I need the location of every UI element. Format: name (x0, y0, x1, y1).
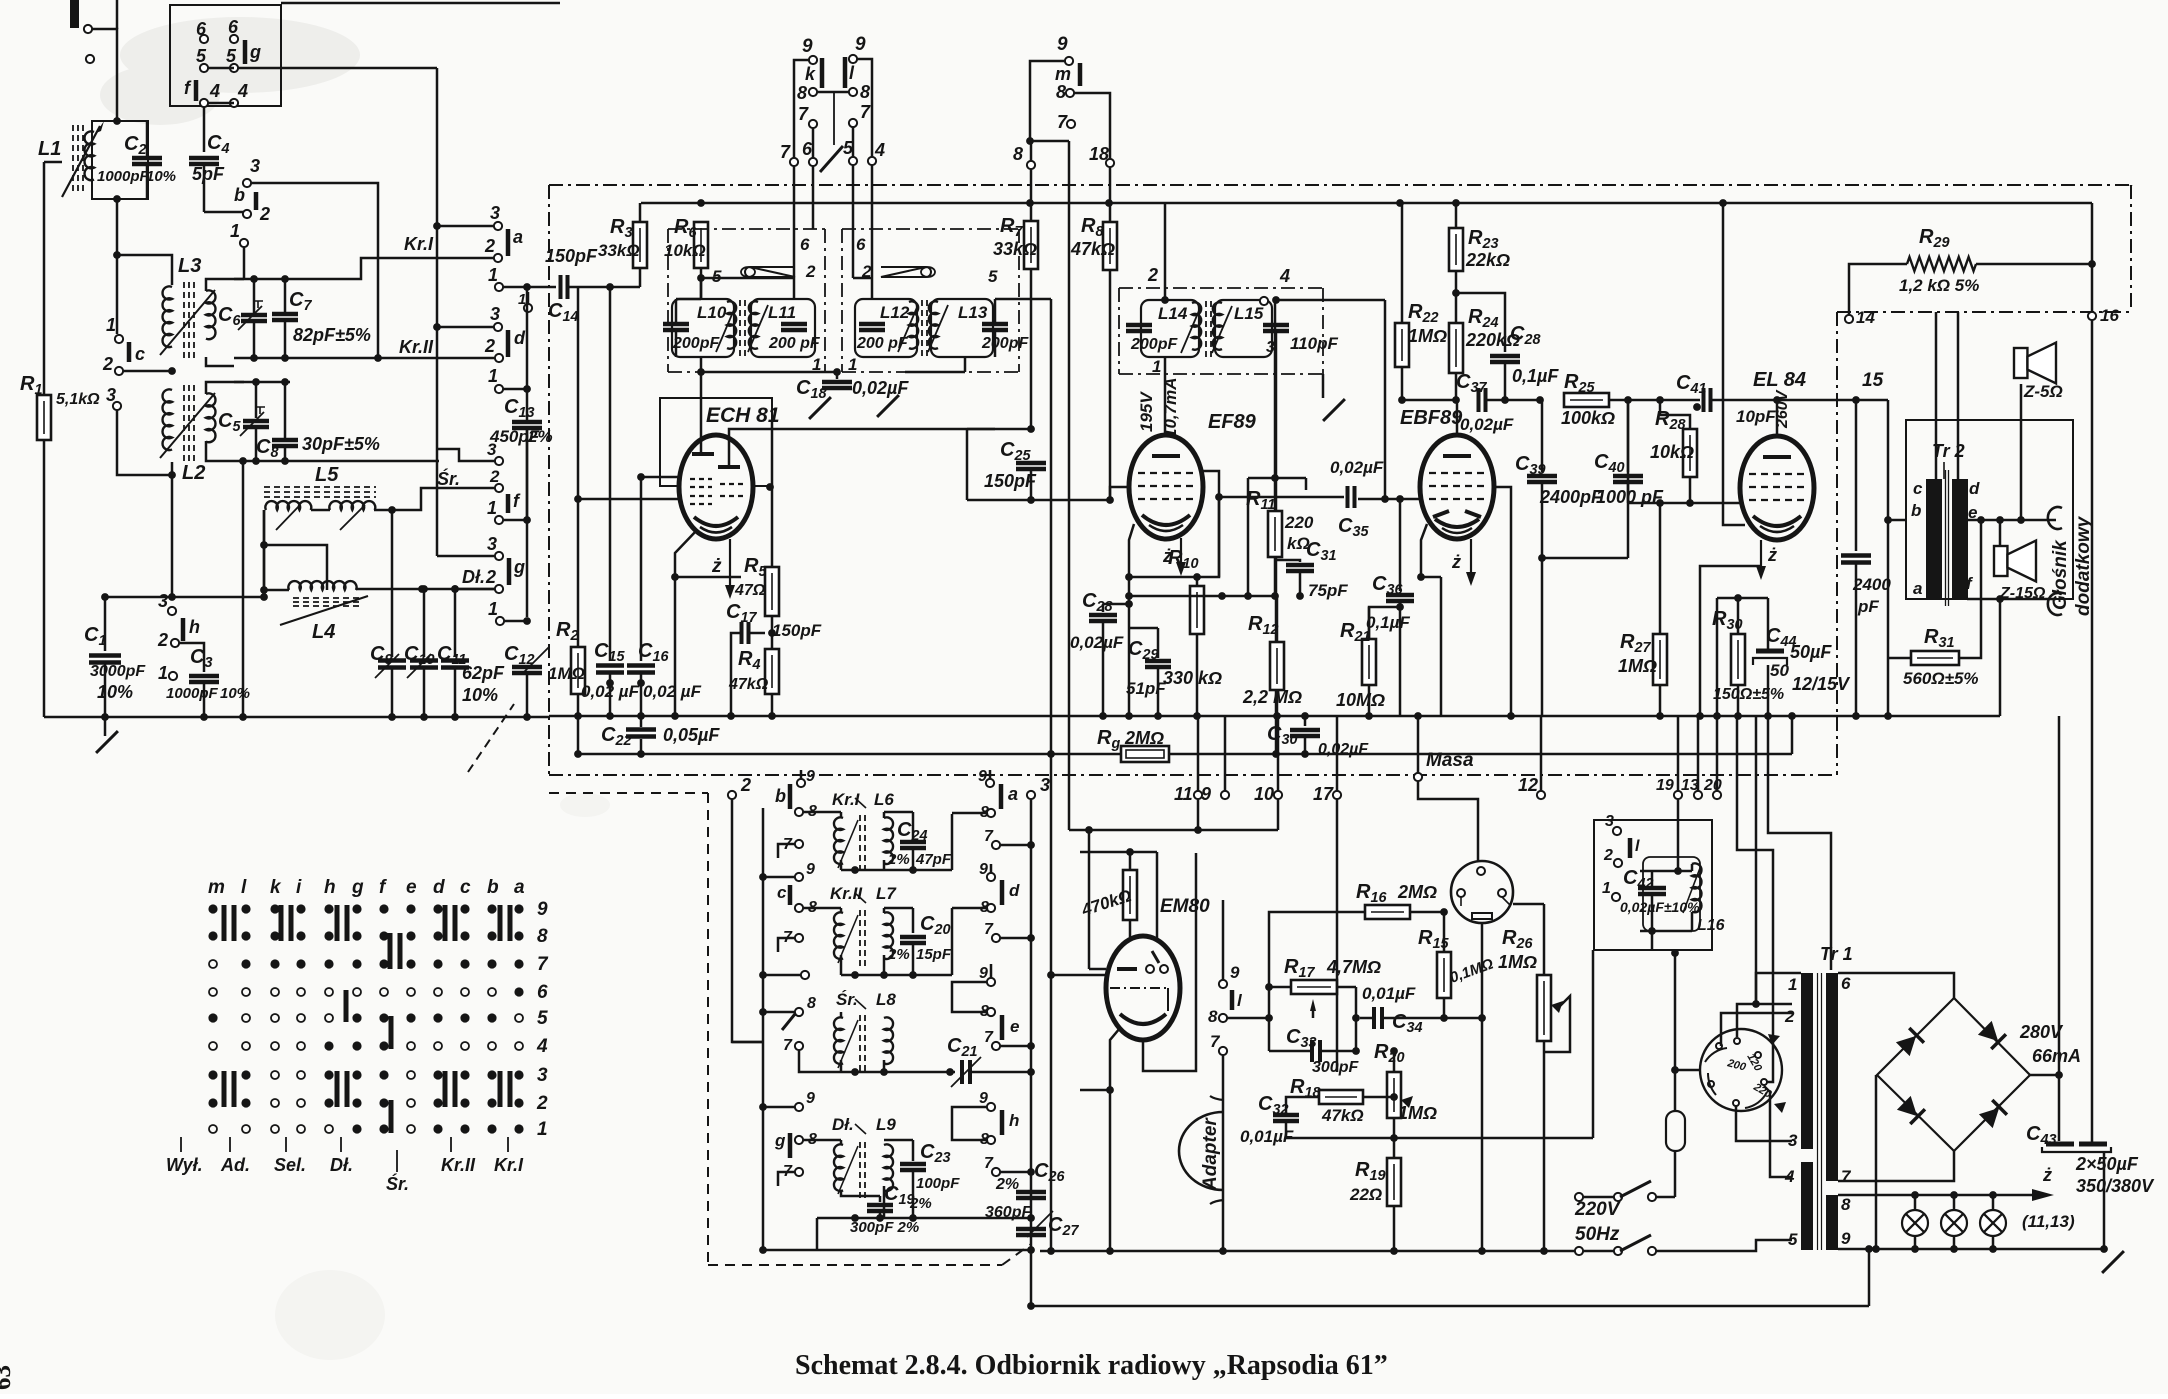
resistor R11 (1274, 300, 1277, 478)
svg-text:10MΩ: 10MΩ (1336, 690, 1385, 710)
svg-text:8: 8 (537, 926, 548, 947)
svg-text:L14: L14 (1158, 304, 1188, 323)
wire c3 down (117, 410, 172, 475)
DIN socket (1451, 861, 1513, 923)
capacitor C27 variable (1016, 1227, 1046, 1232)
capacitor C5 variable (255, 382, 258, 418)
wire sec 6 to bridge (1838, 973, 1954, 998)
svg-text:1: 1 (518, 291, 526, 308)
resistor R18 (1319, 1090, 1363, 1104)
diode D1 (1895, 1028, 1923, 1056)
wire EBF89 diode pin (1492, 487, 1511, 716)
svg-text:2: 2 (259, 204, 270, 224)
svg-text:9: 9 (806, 1090, 815, 1107)
terminal 12 (1537, 791, 1545, 799)
diode D4 (1978, 1100, 2006, 1128)
box L12 (855, 299, 917, 357)
svg-text:Schemat 2.8.4. Odbiornik radio: Schemat 2.8.4. Odbiornik radiowy „Rapsod… (795, 1350, 1388, 1381)
svg-text:Sel.: Sel. (274, 1155, 306, 1175)
capacitor C36 (1399, 499, 1402, 591)
capacitor C1 (104, 597, 107, 651)
wire bottom common (701, 371, 840, 374)
svg-text:Tr 1: Tr 1 (1820, 944, 1853, 964)
wire L14 pin2 (1161, 296, 1169, 304)
wire grid left (641, 476, 680, 479)
svg-text:3: 3 (1040, 775, 1050, 795)
main B+ bus inside shield (641, 202, 2092, 205)
wire tap1 (1756, 973, 1801, 1004)
capacitor C20 (884, 907, 913, 910)
switch d osc (1000, 880, 1005, 905)
svg-text:6: 6 (856, 235, 866, 254)
svg-text:k: k (270, 877, 282, 898)
svg-text:47kΩ: 47kΩ (1321, 1106, 1364, 1125)
wire R3 bottom left (610, 286, 640, 289)
wire L2 sec frame (206, 382, 244, 394)
svg-text:4: 4 (237, 81, 248, 101)
svg-text:Masa: Masa (1426, 750, 1474, 771)
wire g2 row (455, 588, 495, 591)
wire f3 step (437, 449, 496, 461)
svg-text:m: m (1055, 64, 1071, 84)
wire grid from C41 down (1627, 400, 1630, 503)
wire anode up right (729, 429, 1031, 467)
coil L2 (163, 389, 172, 450)
svg-text:260V: 260V (1774, 389, 1791, 429)
terminal 16 (2088, 312, 2096, 320)
svg-text:3: 3 (487, 534, 497, 554)
row 7 6 5 4 (790, 158, 798, 166)
svg-text:Dł.: Dł. (330, 1155, 353, 1175)
svg-text:15: 15 (1862, 370, 1884, 391)
svg-text:50µF: 50µF (1790, 642, 1832, 662)
svg-text:Kr.II: Kr.II (441, 1155, 476, 1175)
long bottom wire (1031, 1305, 1869, 1308)
svg-text:0,02 µF: 0,02 µF (643, 682, 702, 701)
wire g3 left (437, 555, 494, 558)
svg-text:Kr.I: Kr.I (404, 234, 434, 254)
svg-text:9: 9 (1201, 784, 1211, 804)
wire L3 secondary frame (206, 279, 244, 291)
wire 1069 down (1068, 141, 1071, 203)
wire L2 node to ground bus (171, 462, 174, 597)
wire tube right pin down (770, 487, 772, 567)
switch box f/g top-left (170, 5, 281, 106)
speaker Z-5 (2014, 348, 2027, 378)
wire L10 pin5 vertical (700, 278, 703, 299)
svg-text:Kr.I: Kr.I (494, 1155, 524, 1175)
svg-text:6: 6 (800, 235, 810, 254)
svg-text:8: 8 (1208, 1007, 1218, 1026)
svg-text:EL 84: EL 84 (1753, 369, 1806, 391)
matrix bars f-e row8-7 (388, 933, 393, 969)
svg-text:47kΩ: 47kΩ (728, 676, 769, 693)
svg-text:ż: ż (2042, 1165, 2052, 1185)
wire selector left (1675, 1069, 1700, 1072)
wire 11 down (1197, 799, 1200, 830)
svg-text:1MΩ: 1MΩ (548, 664, 585, 683)
svg-text:5: 5 (196, 46, 207, 66)
wire bottom row to Kr.II (234, 357, 494, 360)
svg-text:3: 3 (1788, 1131, 1798, 1150)
svg-text:82pF±5%: 82pF±5% (293, 325, 371, 345)
svg-text:1: 1 (812, 355, 821, 374)
resistor R6 (694, 222, 708, 268)
tube ECH81 (679, 435, 753, 539)
svg-text:L3: L3 (178, 255, 201, 277)
wire R16 right (1410, 911, 1444, 914)
wire C32 row right (1394, 1137, 1593, 1140)
wire heater winding 8 (1838, 1194, 2032, 1197)
capacitor C19 (841, 1190, 855, 1196)
ground slash bottom left (104, 717, 107, 736)
wire d1 right (503, 388, 527, 391)
svg-text:EF89: EF89 (1208, 411, 1257, 433)
wire EM80 right pin (1156, 852, 1159, 940)
svg-text:g: g (249, 42, 261, 62)
svg-text:3: 3 (490, 304, 500, 324)
svg-text:7: 7 (1841, 1167, 1852, 1186)
svg-text:L6: L6 (874, 790, 894, 809)
grid line EF89 (967, 499, 1110, 502)
resistor R28 (1659, 400, 1662, 415)
ground slash IF II (1322, 374, 1325, 398)
svg-text:2: 2 (484, 336, 495, 356)
wire L7 bottom row (841, 974, 952, 977)
svg-text:L8: L8 (876, 990, 896, 1009)
wire EM80 bottom pins (1080, 1028, 1120, 1090)
svg-text:33kΩ: 33kΩ (993, 239, 1037, 259)
svg-text:L11: L11 (768, 303, 796, 322)
wire b9 up (800, 770, 803, 779)
wire 967 top (967, 428, 995, 431)
wires in box (1651, 871, 1654, 888)
switch c osc (795, 873, 803, 881)
wire top row C6/C7 (234, 278, 300, 281)
svg-text:h: h (1009, 1111, 1019, 1130)
svg-text:150pF: 150pF (984, 471, 1037, 491)
svg-text:a: a (514, 877, 525, 898)
capacitor C15 (609, 287, 612, 661)
terminal 14 (1845, 315, 1853, 323)
wire f1 right (503, 519, 527, 522)
svg-text:3000pF: 3000pF (90, 663, 146, 680)
wire 17 down (1336, 799, 1339, 1072)
svg-text:66mA: 66mA (2032, 1046, 2081, 1066)
contact 7 right (992, 841, 1000, 849)
wire top right corner (2130, 185, 2133, 186)
svg-text:5,1kΩ: 5,1kΩ (56, 391, 100, 408)
main bus under shield (549, 715, 2000, 718)
wires from row down into IF (793, 166, 796, 278)
svg-text:9: 9 (537, 899, 548, 920)
antenna terminal block (cut at top) (70, 0, 79, 28)
svg-text:200pF: 200pF (1130, 336, 1178, 353)
wire h2 to C3 (179, 643, 204, 672)
svg-text:17: 17 (1313, 784, 1334, 804)
wire b pin (1888, 519, 1906, 522)
wire a3 (437, 225, 494, 228)
svg-text:0,02µF: 0,02µF (1070, 633, 1124, 652)
svg-text:150pF: 150pF (545, 246, 598, 266)
svg-text:L16: L16 (1697, 917, 1725, 934)
dashed box oscillator (707, 793, 709, 1265)
vertical 763 (762, 808, 765, 1250)
svg-text:10%: 10% (462, 685, 498, 705)
capacitor C39 (1541, 400, 1544, 472)
transformer Tr2 box (1906, 420, 2073, 599)
switch d (Kr.II) (494, 323, 502, 331)
wire e row (1967, 519, 2056, 522)
wire bridge left vertex down (1875, 1075, 1878, 1249)
wire c2 to L3/L2 junction (123, 370, 172, 373)
capacitor C10 variable (423, 589, 426, 657)
wire (92, 29, 117, 121)
svg-text:7: 7 (783, 1037, 793, 1054)
wire L1 left to R1 line (44, 161, 62, 164)
svg-text:3: 3 (158, 591, 168, 611)
svg-text:Śr.: Śr. (437, 468, 460, 489)
wire EBF89 anode top (1456, 400, 1459, 435)
svg-text:10%: 10% (97, 682, 133, 702)
switch mains lower (1575, 1247, 1583, 1255)
capacitor C9 variable (391, 510, 394, 657)
svg-text:2: 2 (102, 354, 113, 374)
svg-text:1: 1 (537, 1119, 548, 1140)
svg-text:Śr.: Śr. (836, 990, 858, 1009)
svg-text:g: g (351, 877, 364, 898)
box L13 (931, 299, 993, 357)
lamps (1902, 1210, 1928, 1236)
main ground bus left section (44, 716, 549, 719)
svg-text:2: 2 (485, 567, 496, 587)
svg-text:Z-5Ω: Z-5Ω (2023, 382, 2063, 401)
capacitor C22 (640, 716, 643, 727)
wire b8 to L6 (803, 811, 841, 814)
wire long horizontal to L4 (105, 596, 264, 599)
switch f osc wiper (795, 1008, 803, 1016)
contact 1 above C6 (240, 239, 248, 247)
wire 15 down to R31 (1887, 400, 1890, 658)
svg-text:9: 9 (1057, 34, 1068, 55)
capacitor C25 (1016, 461, 1046, 466)
svg-text:10pF: 10pF (1736, 407, 1776, 426)
svg-text:330 kΩ: 330 kΩ (1163, 668, 1222, 688)
capacitor C29 (1129, 627, 1158, 630)
resistor R17 pot (1291, 980, 1337, 994)
svg-text:9: 9 (979, 1090, 988, 1107)
resistor R8 (1103, 222, 1117, 270)
tube EF89 (1129, 435, 1203, 539)
diode D3 (1896, 1095, 1924, 1123)
svg-text:0,01µF: 0,01µF (1362, 984, 1416, 1003)
svg-text:L1: L1 (38, 138, 61, 160)
switch f contacts 6/5/4 (200, 35, 208, 43)
EBF89 cathode (1421, 524, 1441, 577)
svg-text:5: 5 (1788, 1230, 1798, 1249)
capacitor 200pF L11 (781, 322, 807, 327)
wire C39/C40 bottom (1542, 557, 1628, 560)
svg-text:220: 220 (1284, 513, 1314, 532)
svg-text:6: 6 (196, 19, 207, 39)
svg-text:1: 1 (488, 265, 498, 285)
wire C4 to switch b (204, 211, 243, 214)
wire L9 bottom row (817, 1217, 1031, 1220)
svg-text:L4: L4 (312, 621, 335, 643)
svg-text:2: 2 (805, 262, 816, 281)
wire primary feeds (1935, 312, 1938, 479)
inner box C42/L16 (1643, 857, 1700, 931)
wire EF89 cathode loop (1129, 471, 1219, 577)
bar k (820, 58, 825, 88)
svg-text:5: 5 (712, 267, 722, 286)
resistor R15 (1437, 952, 1451, 998)
svg-text:9: 9 (855, 34, 866, 55)
resistor R26 pot (1537, 975, 1551, 1041)
wire f4 down to C4 (203, 107, 206, 152)
svg-text:d: d (1009, 881, 1020, 900)
wire L6 bottom row (841, 869, 952, 872)
wire f2 to L5 (392, 488, 494, 510)
svg-text:0,02µF: 0,02µF (852, 378, 909, 398)
voltage selector (1700, 1029, 1782, 1111)
capacitor C35 (1219, 496, 1344, 499)
capacitor C11 (454, 589, 457, 657)
svg-text:k: k (805, 64, 816, 84)
capacitor C8 (284, 382, 287, 438)
capacitor C30 (1304, 716, 1307, 726)
tube ECH81 box (660, 398, 772, 486)
adapter bracket (1179, 1112, 1223, 1190)
box L10 (672, 299, 734, 357)
wire L4 center tap up (264, 545, 327, 590)
svg-text:Kr.II: Kr.II (830, 884, 863, 903)
wire C5/C8 bottom row (234, 460, 439, 463)
wire C34 row to DIN vertical (1444, 1017, 1482, 1020)
capacitor C42 (1638, 886, 1666, 891)
svg-text:Dł.: Dł. (462, 567, 485, 587)
svg-text:9: 9 (1230, 963, 1240, 982)
capacitor C44 electrolytic (1756, 649, 1784, 654)
right bus osc (1030, 799, 1033, 1250)
svg-text:(11,13): (11,13) (2022, 1212, 2075, 1231)
svg-text:7: 7 (780, 142, 791, 162)
svg-text:1: 1 (106, 315, 116, 335)
svg-text:L2: L2 (182, 462, 205, 484)
svg-text:3: 3 (537, 1065, 548, 1086)
wire pin2 L11 (701, 277, 794, 280)
svg-text:50: 50 (1770, 661, 1789, 680)
svg-text:Dł.: Dł. (832, 1115, 854, 1134)
wire screen row (1129, 595, 1275, 598)
svg-text:b: b (1911, 501, 1921, 520)
svg-text:g: g (513, 557, 525, 577)
svg-text:1: 1 (1788, 975, 1797, 994)
svg-text:0,02µF: 0,02µF (1318, 741, 1369, 758)
matrix bars row9-8 (222, 905, 227, 941)
svg-text:6: 6 (802, 139, 813, 159)
svg-text:6: 6 (537, 982, 548, 1003)
coil L4 (288, 581, 356, 590)
switch b (243, 179, 251, 187)
coil L1 (92, 121, 148, 199)
terminal 2 (728, 791, 736, 799)
wire node to L3 (117, 255, 172, 285)
selector arrow (1769, 1040, 1781, 1062)
wire L4 left end (264, 589, 289, 592)
coil L16 (1692, 863, 1701, 912)
svg-text:Z-15Ω: Z-15Ω (1999, 585, 2046, 602)
svg-text:8: 8 (860, 82, 870, 102)
heater arrow EBF89 (1470, 539, 1472, 572)
switch a (Kr.I) (494, 222, 502, 230)
svg-text:8: 8 (807, 995, 816, 1012)
switch l adapter (1219, 980, 1227, 988)
svg-text:12: 12 (1518, 775, 1538, 795)
svg-text:Śr.: Śr. (386, 1173, 409, 1194)
svg-text:0,02µF: 0,02µF (1330, 458, 1384, 477)
switch l2 (1613, 827, 1621, 835)
svg-text:9: 9 (1841, 1229, 1851, 1248)
capacitor C41 (1702, 388, 1706, 412)
terminal 1' (524, 304, 532, 312)
svg-text:L9: L9 (876, 1115, 896, 1134)
svg-text:EBF89: EBF89 (1400, 407, 1463, 429)
wire tube right pin (766, 483, 774, 491)
svg-text:10%: 10% (146, 168, 176, 185)
svg-text:1: 1 (488, 599, 498, 619)
svg-text:9: 9 (979, 861, 988, 878)
svg-text:d: d (1969, 479, 1980, 498)
svg-text:2MΩ: 2MΩ (1397, 882, 1437, 902)
svg-text:1MΩ: 1MΩ (1498, 952, 1537, 972)
resistor R23 (1455, 203, 1458, 228)
svg-text:100pF: 100pF (916, 1175, 960, 1192)
capacitor C34 (1372, 1007, 1376, 1029)
resistor Rg (1121, 746, 1169, 762)
svg-text:5pF: 5pF (192, 164, 225, 184)
svg-text:30pF±5%: 30pF±5% (302, 434, 380, 454)
svg-text:d: d (433, 877, 445, 898)
svg-text:ż: ż (1451, 552, 1461, 572)
IF can II box (1119, 287, 1323, 289)
svg-text:3: 3 (487, 440, 497, 459)
resistor R10 (1196, 577, 1199, 586)
wire bottom long to power (1868, 1249, 1871, 1306)
wire d3 (437, 326, 494, 329)
ground slash right (2102, 1251, 2124, 1273)
svg-text:1: 1 (1602, 880, 1611, 897)
wire cathode node down (1128, 604, 1131, 716)
svg-text:7: 7 (798, 104, 809, 124)
resistor R12 (1276, 596, 1279, 642)
wire L13 bottom (964, 357, 967, 372)
svg-text:9: 9 (978, 768, 987, 785)
coil L10 (727, 301, 736, 348)
svg-text:7: 7 (537, 954, 549, 975)
svg-text:20: 20 (1703, 777, 1722, 794)
tuning link dashed diagonal (468, 704, 514, 772)
wire m8 right down to 18 (1074, 93, 1110, 158)
wire a1 to C14 (503, 286, 556, 289)
wire 5-5 to right (208, 67, 234, 70)
svg-text:4,7MΩ: 4,7MΩ (1326, 957, 1381, 977)
svg-text:L15: L15 (1234, 304, 1264, 323)
svg-text:Kr.II: Kr.II (399, 337, 434, 357)
wire L6 tops (840, 812, 843, 818)
ground slash C18 right (877, 395, 899, 417)
capacitor C6 variable (253, 279, 256, 313)
